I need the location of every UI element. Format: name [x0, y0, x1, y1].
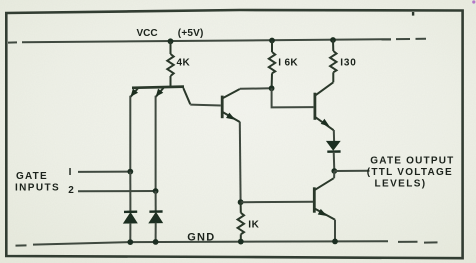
svg-text:(+5V): (+5V)	[178, 28, 204, 39]
diode D3 output level shifter	[327, 141, 341, 171]
node: GND D1	[127, 239, 133, 245]
svg-text:VCC: VCC	[137, 28, 158, 39]
transistor Q2 phase splitter	[222, 89, 240, 122]
svg-text:(TTL VOLTAGE: (TTL VOLTAGE	[367, 167, 453, 178]
wire Q2 emitter down to node B	[239, 122, 242, 202]
node A: R2 bottom / Q2 collector junction	[269, 85, 275, 91]
scan speck top right	[472, 0, 475, 3]
wire Q4 emitter down to GND	[334, 220, 336, 242]
transistor Q4 lower output	[314, 178, 335, 219]
svg-text:I: I	[69, 167, 72, 178]
node: VCC to R3 junction	[330, 37, 336, 43]
svg-text:4K: 4K	[177, 58, 191, 69]
svg-text:I30: I30	[340, 58, 356, 69]
svg-text:I 6K: I 6K	[278, 58, 298, 69]
wire node A down and right to Q3 base	[272, 88, 314, 107]
Q1 emitter arrow 1	[132, 90, 138, 96]
Q3 emitter arrow	[322, 120, 329, 126]
node: GND Q4 emitter	[332, 239, 338, 245]
node: VCC to R1 junction	[168, 38, 174, 44]
resistor R4 1K	[238, 202, 244, 242]
node: input 1 junction	[127, 169, 133, 175]
svg-text:LEVELS): LEVELS)	[375, 178, 427, 189]
wire VCC rail	[8, 39, 426, 43]
Q2 emitter arrow	[227, 114, 234, 119]
wire input 2	[78, 190, 156, 192]
wire Q2 collector to node A	[240, 87, 272, 90]
wire Q3 emitter to diode	[333, 130, 335, 142]
svg-text:GATE: GATE	[16, 171, 48, 182]
resistor R2 1.6K	[269, 41, 275, 89]
diode D1 input clamp	[124, 172, 137, 243]
wire Q1 emitter2 down	[155, 96, 157, 191]
node: VCC to R2 junction	[269, 38, 275, 44]
wire input 1	[78, 171, 130, 173]
wire output	[334, 170, 369, 172]
node: GND R4	[238, 239, 244, 245]
wire Q1 emitter1 down	[129, 96, 131, 172]
svg-text:INPUTS: INPUTS	[15, 183, 60, 194]
diode D2 input clamp	[149, 191, 162, 242]
node: output junction	[331, 168, 337, 174]
svg-text:2: 2	[68, 185, 74, 196]
svg-text:GND: GND	[187, 232, 215, 244]
node: GND D2	[153, 239, 159, 245]
transistor Q1 multi-emitter input	[131, 87, 191, 105]
resistor R3 130	[330, 40, 336, 82]
wire node B to Q4 base	[241, 201, 314, 203]
Q1 emitter arrow 2	[157, 90, 163, 96]
node B: Q2 emitter / R4 / Q4 base junction	[238, 199, 244, 205]
Q4 collector wire up to output node	[333, 171, 335, 178]
svg-text:GATE OUTPUT: GATE OUTPUT	[370, 156, 454, 167]
wire GND rail	[16, 241, 438, 245]
svg-text:IK: IK	[248, 220, 259, 231]
wire Q1 collector to Q2 base	[190, 104, 221, 107]
Q4 emitter arrow	[319, 210, 326, 215]
resistor R1 4K	[167, 41, 173, 86]
transistor Q3 upper output	[315, 82, 334, 130]
node: input 2 junction	[153, 188, 159, 194]
